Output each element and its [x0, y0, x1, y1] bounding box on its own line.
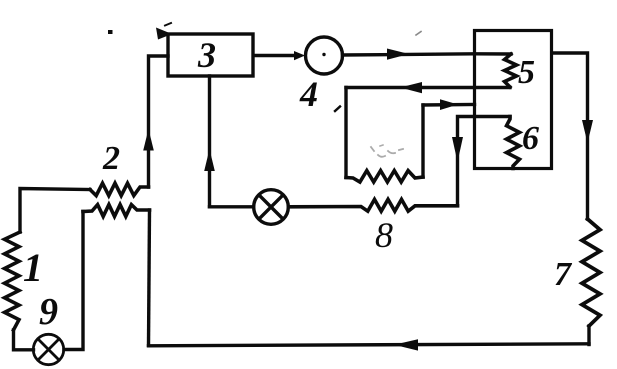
- stray dash above box 3 arrow: [165, 23, 171, 26]
- flow arrow up into box 3 bottom: [204, 149, 215, 171]
- throttle valve (circle with X): [254, 190, 289, 225]
- wire box shell out to right column: [552, 53, 588, 219]
- wire coil 1 up and right to coil 2 upper: [20, 189, 90, 233]
- wire box3 to pump 4: [254, 54, 297, 57]
- arrow at box 3 top-left corner: [156, 28, 172, 40]
- wire coil 7 down to bottom return: [587, 326, 590, 345]
- coil 1: [5, 232, 21, 330]
- coil 2 upper zigzag: [90, 183, 149, 195]
- stray mark near pump outlet wire: [416, 32, 421, 36]
- valve 9 (circle with cross): [33, 334, 63, 364]
- flow arrow left on bottom return: [394, 339, 418, 350]
- flow arrow into pump 4: [294, 51, 305, 60]
- bottom return wire: [149, 344, 590, 346]
- coil 2 lower zigzag: [83, 205, 150, 217]
- flow arrow left on coil-5 return wire: [400, 82, 422, 93]
- flow arrow up into box 3: [143, 129, 154, 151]
- flow arrow toward heat-exchanger box: [387, 49, 409, 60]
- coil 8 with line to coil-6 leg: [289, 199, 458, 211]
- wire coil 6 top to down leg: [458, 117, 511, 206]
- coil 5: [505, 54, 517, 87]
- heat exchanger box (contains coils 5 and 6): [475, 31, 552, 169]
- svg-text:1: 1: [23, 245, 43, 290]
- pump 4 center dot: [322, 53, 325, 56]
- throttle line left segment: [210, 205, 254, 208]
- stray tick left of loop corner: [335, 107, 340, 112]
- faint smudge above recuperator coil: [371, 145, 403, 157]
- pump 4 (circle): [306, 37, 343, 74]
- coil 7: [582, 219, 600, 326]
- wire up at right of recuperator loop: [421, 105, 424, 177]
- stray ink dot top left: [108, 30, 113, 34]
- flow arrow right into box shell: [440, 99, 458, 110]
- svg-text:8: 8: [375, 215, 393, 255]
- flow arrow down on coil-6 leg: [452, 137, 463, 162]
- coil 6: [507, 117, 520, 169]
- svg-text:4: 4: [299, 74, 318, 114]
- wire down at left of recuperator loop: [344, 88, 347, 178]
- wire up from bottom return to coil 2 lower: [149, 210, 150, 346]
- svg-text:7: 7: [554, 256, 573, 293]
- flow arrow down right column: [582, 120, 593, 143]
- box 3 (apparatus 3): [168, 34, 253, 76]
- svg-text:6: 6: [522, 120, 539, 157]
- wire box 3 bottom to throttle line: [208, 76, 211, 207]
- svg-text:3: 3: [197, 35, 216, 75]
- svg-text:2: 2: [102, 140, 120, 177]
- wire coil 5 out, to the left: [346, 86, 510, 89]
- recuperator coil (loop zigzag): [346, 171, 423, 182]
- wire down from coil 2 lower to valve 9: [64, 212, 83, 350]
- svg-text:9: 9: [39, 291, 58, 333]
- wire up from coil 2 upper to box 3 input: [149, 56, 169, 187]
- wire pump 4 to coil 5: [343, 54, 512, 55]
- svg-text:5: 5: [518, 54, 535, 91]
- wire right into heat-exchanger box shell: [423, 103, 475, 107]
- wire valve 9 to coil 1: [14, 330, 34, 350]
